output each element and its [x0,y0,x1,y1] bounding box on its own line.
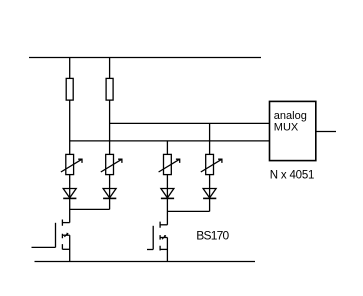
wire column1 P1 bottom through diode D1 to drain junction [69,175,71,223]
body bar Q1 with arrow [62,234,69,236]
resistor R2 [106,78,113,100]
diode D2 [103,189,116,199]
svg-text:analog: analog [274,110,307,122]
diode D3 [161,189,174,199]
svg-text:BS170: BS170 [196,229,229,243]
transistor Q2 (BS170) [147,222,167,262]
node line B : MUX input bus from column2 [110,122,270,124]
drain bar Q2 [160,224,167,226]
drain bar Q1 [62,222,69,224]
channel dashes Q2 [159,222,161,251]
body arrowhead Q2 [164,235,166,237]
source lead Q1 to bottom rail [69,235,71,261]
wire cathode junction D1-D2 [70,208,110,210]
source bar Q1 [62,248,69,250]
variable resistor P4 [201,154,222,174]
gate plate Q2 [152,226,154,250]
wire top supply rail [29,57,261,59]
svg-text:MUX: MUX [274,122,299,134]
variable resistor P3 [159,154,180,174]
variable resistor P1 [61,154,82,174]
analog MUX box U1 [270,101,316,160]
resistor R1 [66,78,73,100]
source lead Q2 to bottom rail [166,238,168,262]
channel dashes Q1 [61,220,63,250]
wire column4 from line B to pot P4 (crosses line C) [209,123,211,154]
gate wire Q1 [32,246,56,248]
wire column2 P2 bottom through diode D2 to cathode junction wire [109,175,111,210]
wire column2 rail to R2 [109,58,111,79]
wire column1 rail to R1 [69,58,71,79]
diode D4 [203,189,216,199]
wire column3 P3 bottom through diode D3 to drain junction [166,175,168,225]
node line C : MUX input bus from column1 [70,140,270,142]
variable resistor P2 [101,154,122,174]
transistor Q1 (BS170) [32,220,70,262]
body arrowhead Q1 [66,233,68,235]
gate wire Q2 [147,249,153,251]
wire cathode junction D3-D4 [167,210,209,212]
output wire of MUX [316,131,336,133]
wire column1 R1 bottom to pot P1 (crosses node line C) [69,100,71,154]
gate plate Q1 [55,223,57,248]
source bar Q2 [160,248,167,250]
wire column4 P4 bottom through diode D4 to cathode junction wire [209,175,211,212]
wire column3 from line C to pot P3 [166,141,168,155]
wire bottom ground rail [35,261,256,263]
body bar Q2 with arrow [160,237,167,239]
svg-text:N x 4051: N x 4051 [270,169,314,181]
wire column2 R2 bottom to pot P2 (node line B taps here) [109,100,111,154]
diode D1 [63,189,76,199]
